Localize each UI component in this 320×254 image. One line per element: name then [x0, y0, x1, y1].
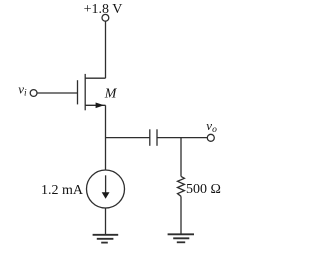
svg-text:M: M [104, 87, 118, 102]
svg-text:vi: vi [18, 82, 27, 99]
svg-text:1.2 mA: 1.2 mA [41, 183, 84, 198]
svg-text:+1.8 V: +1.8 V [84, 2, 123, 17]
svg-text:vo: vo [206, 118, 217, 135]
svg-text:500 Ω: 500 Ω [186, 182, 221, 197]
